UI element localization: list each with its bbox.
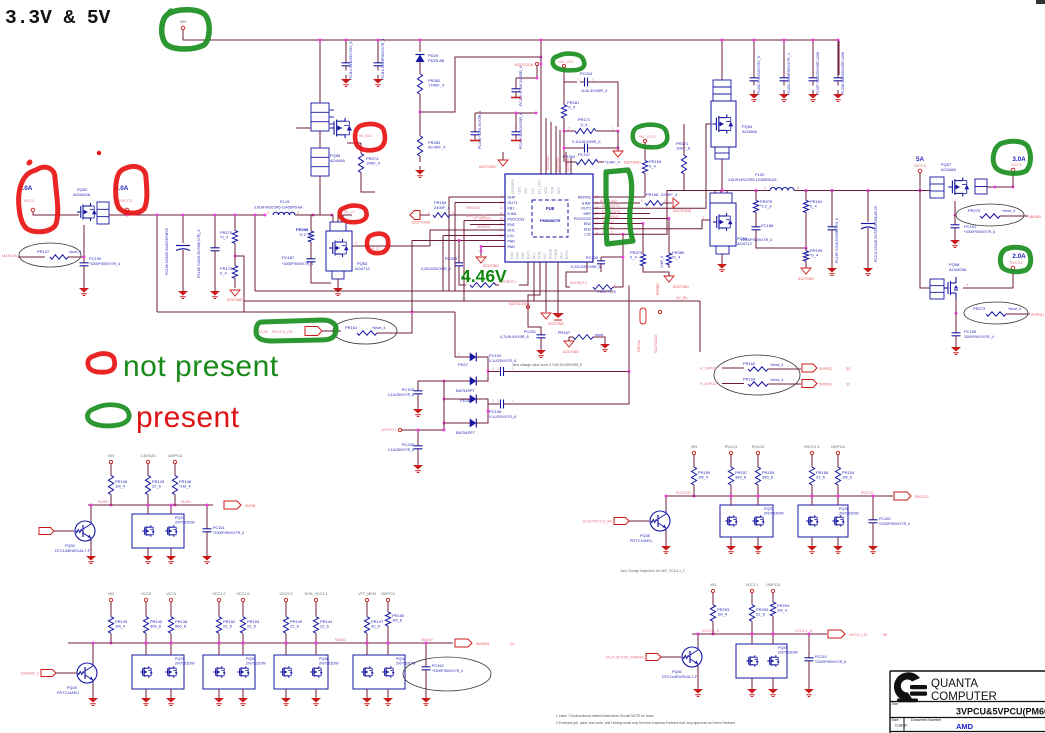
- svg-text:VIN: VIN: [691, 445, 697, 449]
- wire VDD: [528, 262, 540, 309]
- wire: [955, 313, 957, 331]
- wire: [418, 381, 444, 389]
- ground: [419, 166, 421, 170]
- svg-text:PC185 *10U/6.3V/X5R(X7R)_6: PC185 *10U/6.3V/X5R(X7R)_6: [197, 230, 201, 278]
- svg-text:DTC144EUE/UA-T-F: DTC144EUE/UA-T-F: [55, 549, 91, 553]
- wire: [496, 284, 499, 286]
- capacitor PC185: [214, 244, 216, 248]
- svg-text:*1M_4: *1M_4: [179, 484, 191, 489]
- resistor PR379: [642, 251, 644, 254]
- ground: [721, 260, 723, 264]
- svg-text:VCC3: VCC3: [1011, 163, 1021, 167]
- wire: [808, 662, 810, 686]
- ground: [170, 552, 172, 556]
- ground: [511, 140, 521, 142]
- ground: [511, 97, 521, 99]
- wire: [516, 77, 537, 79]
- wire: [156, 215, 158, 312]
- svg-text:2: 2: [664, 199, 666, 203]
- svg-text:6237GND: 6237GND: [673, 285, 689, 289]
- resistor PR281: [563, 101, 565, 105]
- capacitor PC109: [515, 128, 517, 132]
- wire: [145, 689, 147, 695]
- svg-text:2: 2: [797, 186, 799, 190]
- wire: [683, 179, 685, 191]
- svg-text:PU8: PU8: [546, 206, 555, 211]
- ground: [604, 340, 606, 344]
- svg-text:22_6: 22_6: [816, 475, 826, 480]
- wire: [254, 215, 256, 291]
- svg-text:short: short: [595, 333, 603, 337]
- svg-text:3: 3: [492, 399, 494, 403]
- wire ILIM2: [593, 202, 640, 204]
- wire: [555, 126, 557, 174]
- svg-text:VCC1,5: VCC1,5: [237, 592, 250, 596]
- svg-text:5VPGD: 5VPGD: [819, 383, 832, 387]
- wire: [528, 309, 541, 332]
- wire EN2: [593, 223, 643, 225]
- wire: [644, 177, 646, 197]
- wire: [545, 118, 547, 174]
- resistor PR282: [419, 68, 421, 74]
- svg-text:OUT1: OUT1: [508, 201, 518, 205]
- svg-text:4: 4: [702, 216, 704, 220]
- wire: [837, 496, 839, 505]
- wire: [697, 634, 699, 647]
- wire rail: [692, 633, 827, 635]
- svg-text:VDD: VDD: [538, 251, 542, 259]
- svg-text:VIN: VIN: [180, 20, 186, 24]
- svg-text:6R_3VSPD: 6R_3VSPD: [602, 210, 621, 214]
- svg-text:PC198 10U/25V/X5R 1206: PC198 10U/25V/X5R 1206: [841, 52, 845, 95]
- svg-text:PC195: PC195: [964, 329, 977, 334]
- svg-text:RVCC2D: RVCC2D: [676, 491, 691, 495]
- resistor PR171: [566, 130, 575, 132]
- ground: [285, 694, 287, 698]
- wire: [90, 505, 92, 521]
- ground: [182, 287, 184, 291]
- svg-text:*0_4: *0_4: [672, 255, 681, 260]
- svg-text:DH1: DH1: [508, 229, 515, 233]
- wire: [502, 152, 504, 160]
- wire: [837, 490, 839, 496]
- svg-text:PAD: PAD: [508, 245, 516, 249]
- ground: [831, 264, 833, 268]
- annotation green stroke D: [606, 170, 633, 244]
- svg-text:32: 32: [846, 367, 850, 371]
- wire: [683, 124, 685, 150]
- wire: [182, 250, 184, 288]
- wire: [515, 113, 517, 128]
- ground: [377, 75, 379, 79]
- wire: [377, 40, 379, 60]
- svg-text:6237REF: 6237REF: [566, 158, 570, 172]
- wire: [592, 147, 618, 149]
- wire: [126, 212, 128, 215]
- ground: [867, 264, 869, 268]
- svg-text:BST1: BST1: [527, 250, 531, 259]
- svg-text:3: 3: [492, 367, 494, 371]
- svg-text:MAIN2: MAIN2: [335, 638, 346, 642]
- wire: [454, 312, 456, 357]
- resistor PR156: [811, 462, 813, 467]
- capacitor PC198: [837, 74, 839, 78]
- wire: [420, 57, 541, 112]
- ground: [242, 694, 244, 698]
- svg-text:RVCC3_ON: RVCC3_ON: [272, 330, 293, 334]
- wire: [183, 39, 839, 41]
- wire: [837, 40, 839, 75]
- node SCLTLDC#: [658, 310, 661, 313]
- svg-text:*0_4: *0_4: [220, 235, 229, 240]
- resistor PR283: [419, 130, 421, 136]
- ground flag 6237GND: [564, 341, 574, 347]
- svg-text:VCC1,1_D: VCC1,1_D: [795, 629, 813, 633]
- svg-text:*short_4: *short_4: [1002, 209, 1015, 213]
- capacitor PC107: [580, 147, 585, 149]
- transistor PQ28: [77, 663, 97, 683]
- wire: [488, 403, 496, 405]
- wire: [361, 178, 375, 192]
- wire: [480, 399, 488, 423]
- ground: [470, 140, 480, 142]
- svg-text:PC109 1U/10V/X5R_6: PC109 1U/10V/X5R_6: [519, 113, 523, 149]
- svg-text:2.Purchase job, paint, wire co: 2.Purchase job, paint, wire code, and Ho…: [556, 721, 735, 725]
- wire: [170, 689, 172, 695]
- svg-text:VIN: VIN: [710, 583, 716, 587]
- svg-text:1U/6.3V/X5R_4: 1U/6.3V/X5R_4: [581, 89, 607, 93]
- svg-text:VCC1,1: VCC1,1: [746, 583, 759, 587]
- wire: [352, 245, 430, 247]
- svg-text:PC110 4.7U/6.3V/X5R_6: PC110 4.7U/6.3V/X5R_6: [519, 66, 523, 106]
- svg-text:REFIN2: REFIN2: [578, 196, 591, 200]
- svg-text:AO4403A: AO4403A: [949, 267, 967, 272]
- wire: [805, 264, 807, 268]
- ground: [872, 542, 874, 546]
- svg-text:4.46V: 4.46V: [461, 266, 507, 286]
- wire: [170, 602, 172, 612]
- ground: [757, 542, 759, 546]
- svg-text:2: 2: [592, 78, 594, 82]
- svg-text:1M_4: 1M_4: [115, 624, 126, 629]
- wire: [474, 113, 476, 128]
- svg-text:PC210: PC210: [815, 655, 827, 659]
- wire: [147, 505, 149, 514]
- svg-text:*2200P/50V/X7R_4: *2200P/50V/X7R_4: [432, 669, 463, 673]
- ground: [812, 90, 814, 94]
- svg-text:SHP: SHP: [508, 196, 516, 200]
- svg-text:Jerry change value to be 4.7U/: Jerry change value to be 4.7U/6.3V.X5R/X…: [512, 363, 582, 367]
- svg-text:10KF_4: 10KF_4: [366, 161, 381, 166]
- svg-text:TON: TON: [551, 186, 555, 194]
- svg-text:PC251: PC251: [524, 329, 537, 334]
- wire SRP: [593, 213, 650, 215]
- svg-text:1: 1: [612, 127, 614, 131]
- wire: [170, 643, 172, 655]
- capacitor PC110: [515, 85, 517, 89]
- resistor PR293: [712, 600, 714, 605]
- wire: [450, 214, 505, 216]
- svg-text:PQ29: PQ29: [175, 657, 185, 661]
- resistor PR154: [837, 462, 839, 467]
- wire: [315, 602, 317, 612]
- wire: [751, 593, 753, 600]
- transistor PQ38: [650, 511, 670, 531]
- wire: [83, 225, 85, 259]
- capacitor PC191: [954, 221, 956, 225]
- svg-text:H_3VPGD: H_3VPGD: [700, 367, 717, 371]
- wire: [665, 531, 667, 543]
- svg-text:5A: 5A: [916, 156, 925, 163]
- svg-text:22_6: 22_6: [371, 624, 381, 629]
- svg-text:2: 2: [614, 283, 616, 287]
- resistor PR143: [147, 470, 149, 475]
- svg-text:6237GND: 6237GND: [227, 298, 243, 302]
- svg-text:N.C: N.C: [531, 188, 535, 195]
- svg-text:1M_6: 1M_6: [392, 618, 403, 623]
- wire: [570, 158, 572, 174]
- svg-text:6337GND: 6337GND: [624, 161, 641, 165]
- wire: [110, 464, 112, 470]
- ground flag 6237GND: [541, 313, 551, 319]
- svg-text:*0_4: *0_4: [567, 105, 576, 110]
- svg-text:BST2: BST2: [565, 250, 569, 259]
- wire: [837, 455, 839, 462]
- svg-text:0,1U/25V/X7R_6: 0,1U/25V/X7R_6: [489, 359, 516, 363]
- svg-text:1: 1: [512, 367, 514, 371]
- svg-text:VCC1,1_D: VCC1,1_D: [702, 629, 720, 633]
- svg-text:22_6: 22_6: [247, 624, 257, 629]
- wire: [425, 643, 427, 665]
- wire: [536, 65, 538, 78]
- ground flag: [613, 151, 623, 157]
- wire: [811, 455, 813, 462]
- wire: [563, 148, 565, 162]
- svg-text:PC160: PC160: [879, 517, 891, 521]
- wire: [285, 643, 287, 655]
- svg-text:2N7002DW: 2N7002DW: [319, 662, 339, 666]
- wire: [838, 40, 840, 75]
- svg-text:*2.2_6: *2.2_6: [760, 204, 772, 209]
- capacitor PC197: [812, 74, 814, 78]
- svg-text:0,22U/25V/X5R_6: 0,22U/25V/X5R_6: [571, 265, 601, 269]
- svg-text:3,6UH-MSCDR5-1045DR5-6A: 3,6UH-MSCDR5-1045DR5-6A: [728, 178, 777, 182]
- wire: [693, 455, 695, 462]
- svg-text:+5V_VCC: +5V_VCC: [558, 60, 574, 64]
- ground: [92, 694, 94, 698]
- svg-text:390_6: 390_6: [735, 475, 747, 480]
- wire: [668, 219, 670, 251]
- capacitor PC203: [458, 259, 460, 263]
- svg-text:SCLTLDC#: SCLTLDC#: [654, 335, 658, 353]
- wire: [954, 215, 956, 223]
- svg-text:PM6686TR: PM6686TR: [540, 218, 560, 223]
- wire: [601, 256, 623, 258]
- wire PSOCD21: [470, 224, 505, 226]
- svg-text:0,1U/10V/X5R_6: 0,1U/10V/X5R_6: [572, 140, 601, 144]
- wire: [872, 524, 874, 543]
- wire rail: [68, 642, 453, 644]
- wire: [360, 143, 362, 148]
- wire: [417, 395, 419, 406]
- transistor PQ60: [682, 647, 702, 667]
- resistor PR157: [730, 462, 732, 467]
- svg-text:ILIM1: ILIM1: [508, 212, 517, 216]
- wire PAD: [481, 247, 505, 257]
- wire: [643, 269, 669, 276]
- wire: [751, 634, 753, 644]
- wire: [563, 122, 565, 131]
- svg-text:AO4468: AO4468: [330, 158, 345, 163]
- svg-text:RVCCD: RVCCD: [861, 491, 874, 495]
- transistor PQ34: [353, 655, 405, 689]
- wire: [665, 496, 667, 511]
- svg-text:VIN: VIN: [524, 188, 528, 194]
- wire ILIM1: [464, 220, 505, 222]
- resistor PR153: [242, 612, 244, 617]
- wire: [310, 215, 312, 228]
- svg-text:PQ36: PQ36: [319, 657, 329, 661]
- transistor PQ29: [132, 655, 184, 689]
- wire: [214, 215, 216, 246]
- svg-text:VCC3: VCC3: [166, 592, 176, 596]
- svg-text:22_6: 22_6: [152, 484, 162, 489]
- ground: [665, 542, 667, 546]
- svg-text:PL20: PL20: [755, 172, 765, 177]
- svg-text:2N7002DW: 2N7002DW: [246, 662, 266, 666]
- svg-text:5V_LX: 5V_LX: [344, 210, 355, 214]
- wire: [661, 656, 681, 658]
- svg-text:*2200P/50V/X7R_4: *2200P/50V/X7R_4: [879, 522, 910, 526]
- svg-text:1,5VSUS: 1,5VSUS: [140, 454, 156, 458]
- svg-text:3.6UH-MSCDR5-1045DR5-6A: 3.6UH-MSCDR5-1045DR5-6A: [254, 206, 303, 210]
- svg-text:39: 39: [883, 633, 887, 637]
- wire gate AO4403A: [920, 191, 930, 289]
- svg-text:4,7U/6.3V/X5R_6: 4,7U/6.3V/X5R_6: [500, 335, 529, 339]
- svg-text:PC108 *1U/6.3V/X5R_4: PC108 *1U/6.3V/X5R_4: [478, 111, 482, 149]
- svg-text:PD27: PD27: [458, 362, 469, 367]
- wire: [174, 464, 176, 470]
- capacitor PC251: [540, 331, 542, 335]
- wire: [811, 496, 813, 505]
- svg-text:Custom: Custom: [895, 724, 907, 728]
- wire: [730, 490, 732, 496]
- svg-text:Size: Size: [892, 718, 899, 722]
- svg-text:2: 2: [452, 211, 454, 215]
- svg-text:PL19: PL19: [280, 199, 290, 204]
- annotation red ring RVCC3: [116, 166, 147, 213]
- ground: [83, 284, 85, 288]
- ground: [417, 461, 419, 465]
- resistor PR294: [772, 598, 774, 602]
- svg-text:10KF_4: 10KF_4: [660, 256, 664, 268]
- svg-text:2400F_4: 2400F_4: [434, 205, 451, 210]
- ground: [315, 694, 317, 698]
- wire: [867, 191, 869, 223]
- svg-text:AO4712: AO4712: [355, 266, 370, 271]
- svg-text:LDO: LDO: [518, 187, 522, 194]
- capacitor PC114: [345, 59, 347, 63]
- wire: [811, 537, 813, 543]
- svg-text:3VPGD: 3VPGD: [819, 367, 832, 371]
- resistor PR139: [110, 612, 112, 617]
- wire: [206, 505, 208, 527]
- svg-text:RVCCD: RVCCD: [915, 495, 929, 499]
- svg-text:GHC1#: GHC1#: [637, 340, 641, 352]
- wire: [569, 336, 573, 338]
- wire: [420, 214, 430, 216]
- annotation green oval legend: [87, 405, 129, 426]
- ground: [387, 694, 389, 698]
- svg-text:1M_6: 1M_6: [842, 475, 853, 480]
- transistor PQ31: [132, 514, 184, 548]
- svg-text:900_6: 900_6: [150, 624, 162, 629]
- svg-text:*1000P/50V/X7R_4: *1000P/50V/X7R_4: [741, 238, 772, 242]
- svg-text:Document Number: Document Number: [911, 718, 942, 722]
- resistor PR371: [683, 150, 685, 155]
- svg-text:PC186 223U/6.3V/AT/20%R/5: PC186 223U/6.3V/AT/20%R/5: [165, 228, 169, 275]
- svg-text:not present: not present: [123, 350, 279, 383]
- wire: [337, 279, 339, 286]
- resistor PR152: [218, 612, 220, 617]
- wire: [837, 537, 839, 543]
- svg-text:6237TGND: 6237TGND: [412, 221, 431, 225]
- ground: [783, 90, 785, 94]
- wire: [444, 422, 466, 424]
- wire: [419, 40, 421, 52]
- svg-text:15VPCU: 15VPCU: [766, 583, 781, 587]
- svg-text:DTC144EU/EUA-7-F: DTC144EU/EUA-7-F: [662, 675, 698, 679]
- resistor PR169: [644, 157, 646, 161]
- resistor PR148: [174, 470, 176, 475]
- wire: [955, 337, 957, 344]
- wire: [145, 602, 147, 612]
- wire: [564, 130, 566, 132]
- wire: [540, 40, 542, 174]
- wire: [145, 638, 147, 643]
- wire: [234, 247, 236, 262]
- svg-text:PC208: PC208: [402, 442, 415, 447]
- diode PD28b: [470, 419, 477, 428]
- svg-text:*1000P/50V/X7R_6: *1000P/50V/X7R_6: [964, 230, 995, 234]
- wire: [463, 221, 465, 302]
- wire: [644, 143, 646, 157]
- svg-text:PAD: PAD: [510, 252, 514, 259]
- svg-text:VIN: VIN: [108, 592, 114, 596]
- svg-text:VCC0,9: VCC0,9: [280, 592, 293, 596]
- wire: [92, 643, 94, 663]
- wire: [170, 548, 172, 553]
- capacitor PC187: [310, 255, 312, 259]
- resistor PR164: [805, 197, 807, 200]
- ground: [417, 405, 419, 409]
- svg-text:PC107: PC107: [578, 152, 591, 157]
- wire: [366, 638, 368, 643]
- ground: [808, 685, 810, 689]
- wire: [1012, 172, 1014, 187]
- wire: [110, 500, 112, 505]
- wire: [218, 638, 220, 643]
- wire: [515, 78, 517, 85]
- svg-text:*1000P/50V/X7R_4: *1000P/50V/X7R_4: [282, 262, 313, 266]
- wire: [757, 455, 759, 462]
- svg-text:15VPCU: 15VPCU: [381, 428, 396, 432]
- wire: [444, 380, 466, 382]
- ground: [837, 542, 839, 546]
- wire: [295, 214, 333, 216]
- wire: [805, 191, 807, 198]
- wire: [592, 82, 618, 127]
